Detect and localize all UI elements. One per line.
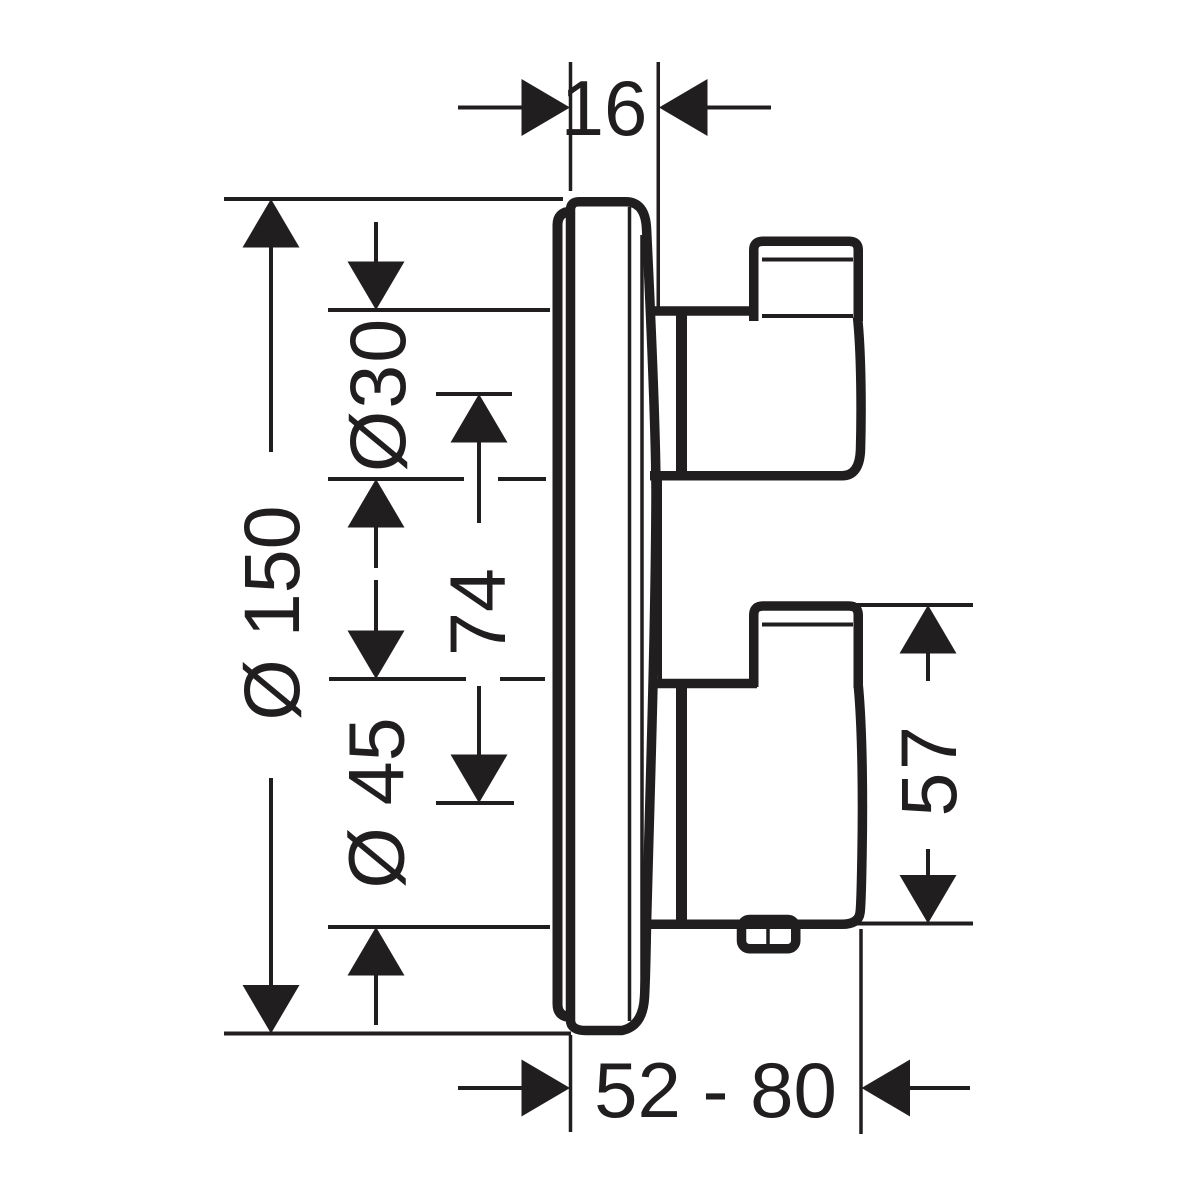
lower handle safety button [742, 920, 796, 949]
dimension 16 left extension line [569, 62, 573, 191]
dimension D30 upper arrow tail [374, 222, 378, 263]
dimension 74 upper arrow [451, 394, 508, 443]
dimension 16 right tail [707, 106, 771, 110]
dimension D30 top extension line [328, 308, 550, 312]
plate rim line [640, 235, 644, 1010]
svg-text:Ø30: Ø30 [333, 317, 422, 472]
dimension 57 bottom extension line [856, 922, 973, 926]
svg-text:16: 16 [561, 64, 648, 152]
dimension 57 top extension line [856, 603, 973, 607]
lower handle sleeve joint line [676, 684, 687, 925]
dimension D150 top arrow [243, 199, 300, 248]
upper handle grip outline [754, 241, 859, 321]
dimension D45 upper arrow [348, 631, 405, 680]
wall line lower segment [658, 480, 662, 680]
dimension D150 bottom arrow [243, 985, 300, 1034]
upper handle body right edge and bottom edge [650, 317, 861, 476]
dimension D150 lower tail [269, 778, 273, 987]
upper handle grip bottom line [762, 314, 853, 318]
dimension D30 lower arrow [348, 479, 405, 528]
dimension 74 lower tail [477, 686, 481, 755]
dimension D45 upper arrow tail [374, 580, 378, 632]
dimension 16 left arrow [522, 79, 571, 136]
svg-text:52 - 80: 52 - 80 [594, 1046, 837, 1134]
lower handle safety button divider [766, 927, 770, 946]
dimension 74 top extension line [436, 392, 512, 396]
upper handle grip inner line [762, 258, 853, 262]
dimension 52-80 right extension line [859, 929, 863, 1134]
svg-text:57: 57 [884, 724, 973, 817]
dimension D45 bottom extension line [328, 925, 550, 929]
dimension 16 right extension line / wall line upper segment [657, 62, 661, 308]
dimension 74 bottom extension line [436, 801, 514, 805]
lower handle body top edge [650, 679, 757, 689]
dimension 52-80 left arrow [522, 1060, 571, 1117]
upper handle body top edge [650, 306, 757, 316]
dimension 74 lower arrow [451, 755, 508, 804]
dimension 16 right arrow [659, 79, 708, 136]
dimension D45 top extension line (broken) [329, 677, 466, 681]
dimension D150 bottom extension line [224, 1032, 571, 1036]
dimension 52-80 left tail [458, 1086, 522, 1090]
upper handle sleeve joint line [676, 311, 687, 475]
dimension 16 left tail [458, 106, 522, 110]
dimension D45 lower arrow tail [374, 975, 378, 1025]
dimension 52-80 right arrow [862, 1060, 911, 1117]
dimension D150 upper tail [269, 246, 273, 452]
dimension 52-80 right tail [910, 1086, 970, 1090]
dimension 57 upper tail [926, 653, 930, 681]
dimension 74 upper tail [477, 442, 481, 523]
dimension D45 lower arrow [348, 927, 405, 976]
dimension D150 top extension line [224, 197, 563, 201]
dimension 52-80 left extension line [569, 1035, 573, 1132]
svg-text:Ø 150: Ø 150 [227, 505, 316, 720]
dimension 57 upper arrow [900, 605, 957, 654]
plate front cover outline [571, 202, 657, 1031]
dimension D30 upper arrow [348, 262, 405, 311]
lower handle grip outline [754, 606, 859, 688]
lower handle grip inner line [762, 623, 853, 627]
dimension 57 lower tail [926, 849, 930, 875]
svg-text:74: 74 [433, 568, 522, 656]
plate back flange [558, 212, 572, 1018]
plate front face line [628, 207, 632, 1021]
lower handle body right edge and bottom edge [650, 685, 862, 924]
svg-text:Ø 45: Ø 45 [332, 717, 421, 888]
dimension D30 lower arrow tail [374, 527, 378, 568]
dimension D30 bottom extension line (broken) [328, 477, 464, 481]
dimension 57 lower arrow [900, 875, 957, 924]
